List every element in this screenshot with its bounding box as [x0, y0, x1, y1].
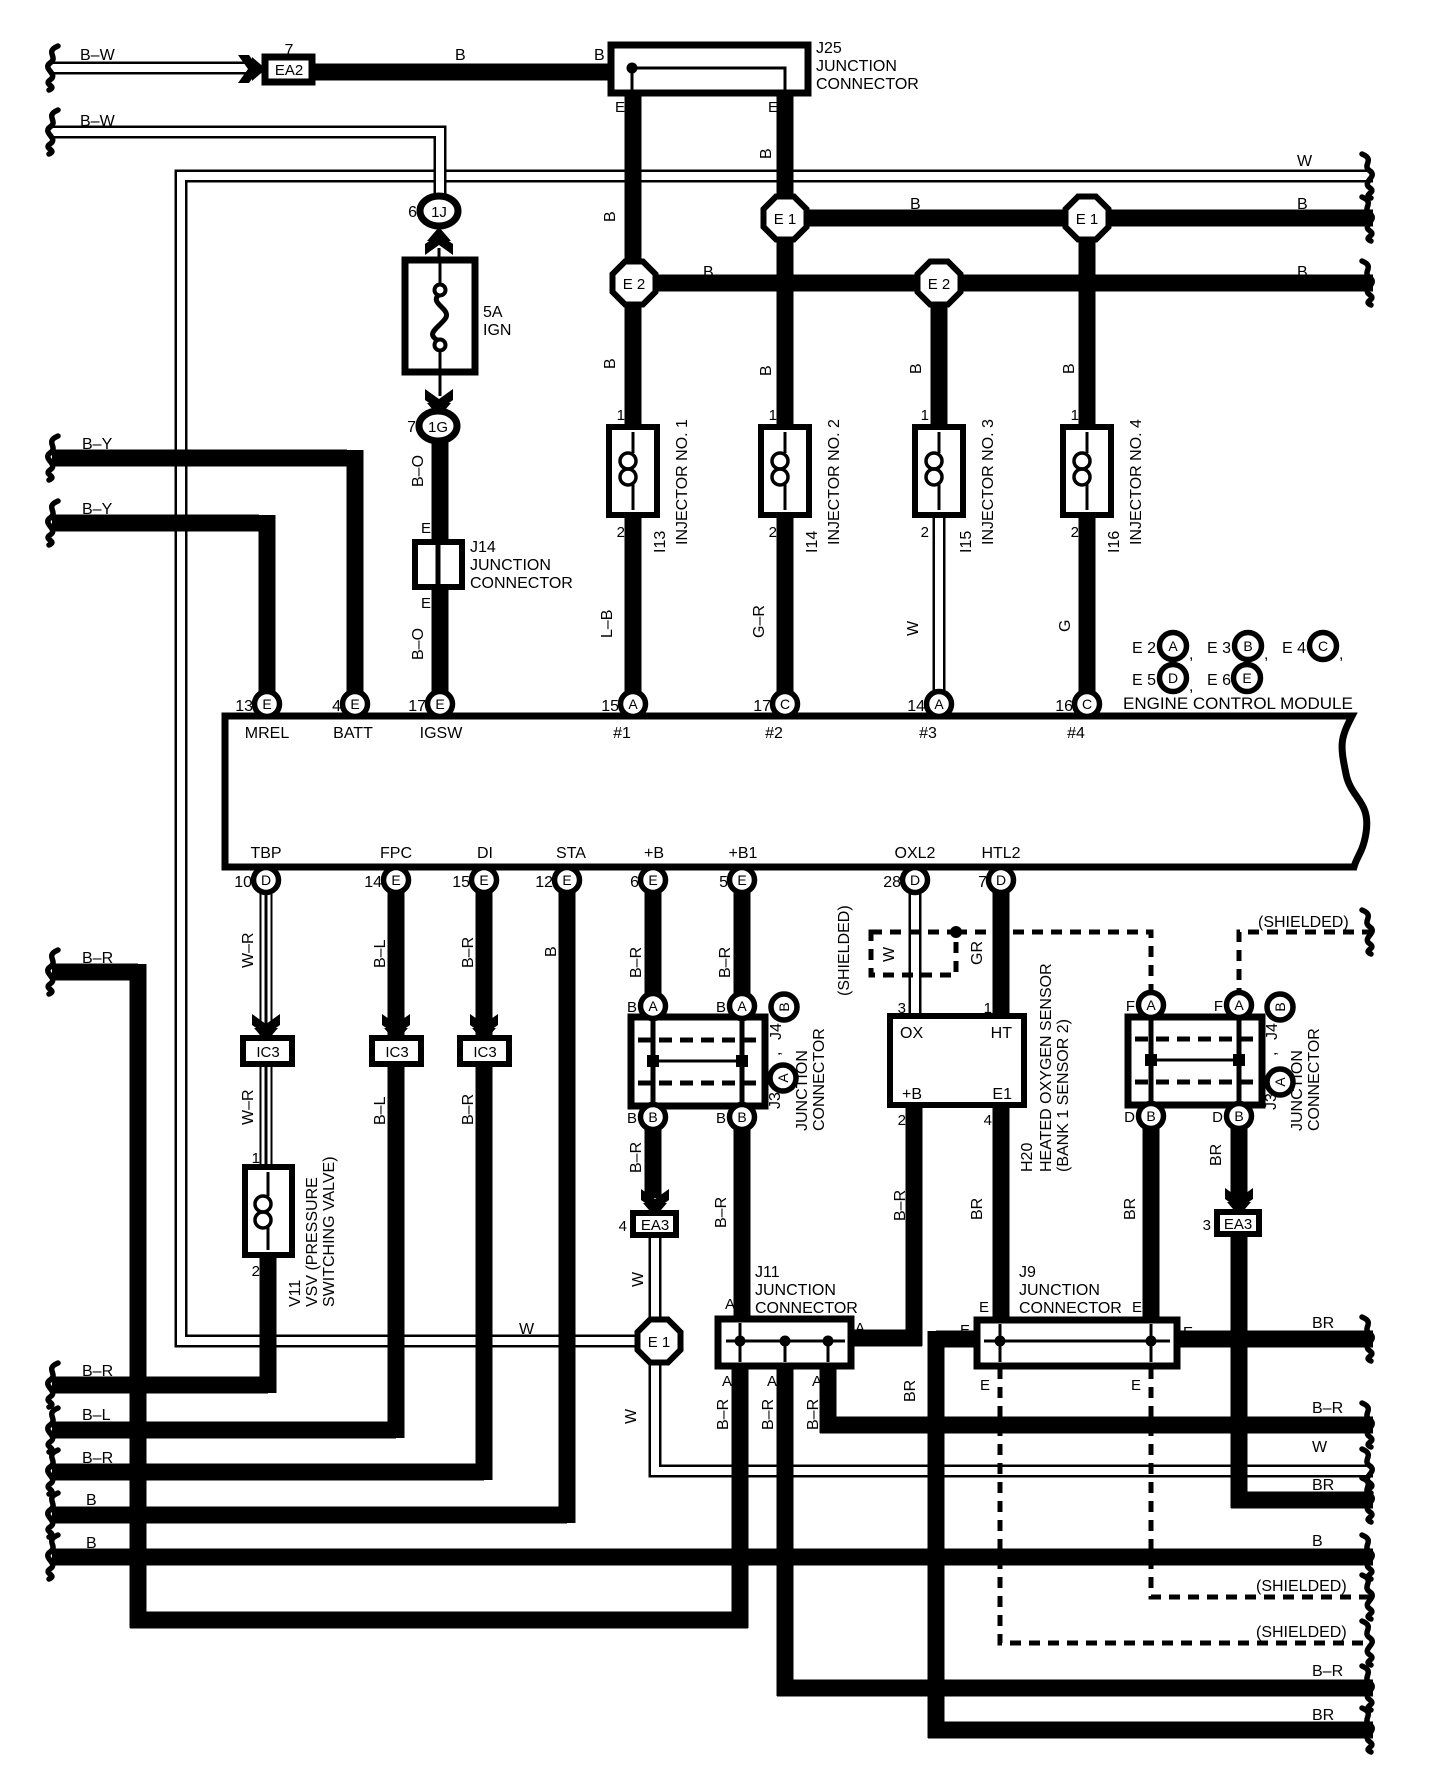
svg-text:,: ,	[1339, 646, 1343, 663]
connector EA3-3 box	[1217, 1212, 1259, 1234]
injector I14 box	[761, 427, 809, 515]
svg-text:(SHIELDED): (SHIELDED)	[1256, 1624, 1347, 1641]
svg-text:A: A	[934, 696, 944, 712]
svg-text:E: E	[421, 595, 431, 612]
svg-text:1: 1	[984, 1000, 992, 1017]
sensor OX H2O box	[890, 1016, 1024, 1105]
svg-text:A: A	[775, 1073, 791, 1083]
svg-text:5: 5	[719, 874, 728, 891]
svg-text:G: G	[1057, 620, 1074, 632]
svg-text:B: B	[716, 999, 726, 1016]
svg-text:6: 6	[630, 874, 639, 891]
ECM engine control module box	[225, 716, 1367, 867]
svg-text:#1: #1	[613, 725, 631, 742]
left junction circle B B1	[641, 1105, 666, 1130]
wire B-W second to node 1J	[52, 132, 440, 200]
svg-text:EA2: EA2	[275, 62, 303, 79]
svg-text:B: B	[602, 358, 619, 369]
svg-text:EA3: EA3	[641, 1217, 669, 1234]
svg-text:I13: I13	[652, 531, 669, 553]
break arrow right W bottom	[1362, 1449, 1372, 1493]
svg-text:E: E	[350, 696, 359, 712]
svg-text:(BANK 1 SENSOR 2): (BANK 1 SENSOR 2)	[1055, 1019, 1072, 1172]
break arrow left B-Y 1	[48, 436, 58, 480]
svg-text:B: B	[1146, 1108, 1155, 1124]
svg-text:15: 15	[452, 874, 470, 891]
svg-text:OX: OX	[900, 1025, 923, 1042]
junction connector J9 box	[977, 1320, 1177, 1366]
svg-text:A: A	[722, 1373, 732, 1390]
svg-text:A: A	[737, 998, 747, 1014]
svg-text:28: 28	[883, 874, 901, 891]
connector arrow down into EA3-3	[1225, 1188, 1253, 1216]
svg-text:E 2: E 2	[623, 276, 646, 293]
wire B-R sensor OX pin +B to junction connector J11 pin A	[848, 1108, 922, 1346]
svg-text:B: B	[758, 365, 775, 376]
svg-text:7: 7	[978, 874, 987, 891]
svg-text:C: C	[780, 696, 790, 712]
ECM terminal 10 D TBP	[254, 868, 279, 893]
svg-text:JUNCTION: JUNCTION	[1019, 1282, 1100, 1299]
svg-text:J3: J3	[767, 1092, 784, 1109]
svg-text:B–W: B–W	[80, 113, 116, 130]
svg-text:17: 17	[753, 698, 771, 715]
svg-text:JUNCTION: JUNCTION	[755, 1282, 836, 1299]
break arrow right BR EA3	[1362, 1478, 1372, 1522]
svg-text:2: 2	[921, 524, 929, 541]
svg-text:B–R: B–R	[82, 1363, 113, 1380]
break arrow left B 2	[48, 1535, 58, 1579]
svg-text:12: 12	[535, 874, 553, 891]
svg-text:BR: BR	[1208, 1144, 1225, 1166]
ECM terminal 4 E BATT	[343, 692, 368, 717]
svg-text:D: D	[910, 872, 920, 888]
ECM terminal 28 D OXL2	[903, 868, 928, 893]
svg-text:IC3: IC3	[385, 1044, 408, 1061]
circle J3 A right	[1267, 1069, 1293, 1095]
svg-text:B–R: B–R	[628, 1142, 645, 1173]
svg-text:INJECTOR NO. 1: INJECTOR NO. 1	[674, 419, 691, 545]
svg-text:6: 6	[408, 204, 417, 221]
ECM terminal 15 A #1	[621, 692, 646, 717]
svg-text:B–R: B–R	[1312, 1400, 1343, 1417]
svg-text:A: A	[725, 1296, 735, 1313]
shield dashed line to right junction connector F-A left	[956, 932, 1151, 990]
break arrow right B bottom	[1362, 1535, 1372, 1579]
break arrow left B-Y 2	[48, 501, 58, 545]
shield dashed line J9 pin E right to right edge	[1151, 1368, 1373, 1597]
wire B-R junction connector J11 pin A2 to right edge	[777, 1364, 1373, 1696]
wire B-R ECM pin +B to junction connector circle A	[645, 888, 662, 1002]
junction connector J11 box	[718, 1319, 851, 1366]
svg-text:B: B	[1312, 1533, 1323, 1550]
svg-text:B: B	[648, 1109, 657, 1125]
svg-text:2: 2	[1071, 524, 1079, 541]
break arrow right BR 2	[1362, 1708, 1372, 1752]
J25 inner bus	[632, 68, 785, 90]
svg-text:C: C	[1082, 696, 1092, 712]
right junction circle F A2	[1227, 993, 1252, 1018]
svg-text:B–Y: B–Y	[82, 436, 113, 453]
wire L-B injector no.1 to ECM pin #1	[625, 514, 642, 697]
svg-text:B: B	[543, 946, 560, 957]
svg-text:1: 1	[921, 407, 929, 424]
svg-text:E 6: E 6	[1207, 672, 1231, 689]
ECM terminal 17 E IGSW	[428, 692, 453, 717]
svg-text:B–Y: B–Y	[82, 501, 113, 518]
svg-text:E 2: E 2	[928, 276, 951, 293]
svg-text:B: B	[737, 1109, 746, 1125]
break arrow left B-R 2	[48, 1363, 58, 1407]
ECM terminal 6 E +B	[641, 868, 666, 893]
svg-text:D: D	[1124, 1109, 1135, 1126]
svg-text:,: ,	[1263, 1052, 1280, 1056]
svg-text:I14: I14	[804, 531, 821, 553]
svg-text:B: B	[1234, 1108, 1243, 1124]
svg-text:E: E	[615, 99, 625, 116]
svg-text:CONNECTOR: CONNECTOR	[1019, 1300, 1122, 1317]
connector arrow up into 1J	[425, 234, 453, 255]
svg-text:IGN: IGN	[483, 322, 511, 339]
svg-text:J11: J11	[755, 1264, 780, 1281]
svg-text:DI: DI	[477, 845, 493, 862]
svg-text:J9: J9	[1019, 1264, 1036, 1281]
connector arrow chevrons into EA2	[238, 55, 259, 83]
svg-text:E: E	[737, 872, 746, 888]
junction connector J14 box	[415, 542, 462, 587]
wire GR ECM pin HTL2 to sensor OX pin HT	[993, 888, 1010, 1020]
svg-text:JUNCTION: JUNCTION	[816, 58, 897, 75]
svg-text:,: ,	[1189, 678, 1193, 695]
wire B from left edge up to ECM pin STA	[52, 888, 567, 1523]
svg-text:INJECTOR NO. 2: INJECTOR NO. 2	[826, 419, 843, 545]
svg-text:B–R: B–R	[713, 1197, 730, 1228]
svg-text:A: A	[1272, 1077, 1288, 1087]
break arrow left B-R 1	[48, 950, 58, 994]
wire B node E1 to injector no.2	[777, 237, 794, 432]
svg-text:B–O: B–O	[410, 628, 427, 660]
svg-text:4: 4	[619, 1218, 627, 1235]
svg-text:E 4: E 4	[1282, 640, 1306, 657]
svg-text:B–R: B–R	[460, 937, 477, 968]
svg-text:B–R: B–R	[805, 1399, 822, 1430]
svg-text:E: E	[768, 99, 778, 116]
svg-text:INJECTOR NO. 4: INJECTOR NO. 4	[1128, 419, 1145, 545]
svg-text:(SHIELDED): (SHIELDED)	[836, 905, 853, 996]
svg-text:F: F	[1126, 998, 1135, 1015]
wire B node E2 row to right edge	[634, 275, 1373, 292]
svg-text:W: W	[623, 1408, 640, 1424]
svg-text:B: B	[910, 196, 921, 213]
svg-text:,: ,	[1189, 646, 1193, 663]
svg-text:J25: J25	[816, 40, 842, 57]
node E1 second octagon	[1066, 197, 1109, 240]
connector IC3-6 box	[243, 1038, 292, 1064]
svg-text:E: E	[391, 872, 400, 888]
break arrow left B-L	[48, 1408, 58, 1452]
wire B node E2-2 to injector no.3	[931, 302, 948, 432]
wire B node E1 row to right edge	[785, 210, 1373, 227]
svg-text:E: E	[1131, 1377, 1141, 1394]
wire B-R from left edge up to ECM pin DI	[52, 888, 484, 1480]
svg-text:I16: I16	[1106, 531, 1123, 553]
svg-text:E: E	[648, 872, 657, 888]
wire fuse to arrow	[439, 372, 442, 396]
fuse element	[439, 263, 442, 370]
circle J3 A left	[770, 1065, 796, 1091]
svg-text:B–R: B–R	[715, 1399, 732, 1430]
connector arrow down into IC3-19	[382, 1014, 410, 1042]
wire B node E2 to injector no.1	[625, 302, 642, 432]
svg-text:ENGINE CONTROL MODULE: ENGINE CONTROL MODULE	[1123, 694, 1353, 713]
svg-text:B–L: B–L	[372, 1096, 389, 1125]
svg-text:A: A	[1234, 997, 1244, 1013]
injector I15 box	[915, 427, 963, 515]
svg-text:B: B	[908, 363, 925, 374]
wire W from ECM pin OXL2 to sensor OX pin 3	[909, 890, 922, 1016]
wire B-R left edge to valve VSV pin 2	[52, 1252, 268, 1393]
wire W-R from ECM pin TBP to connector IC3-6	[260, 888, 273, 1040]
break arrow right shield 2	[1362, 1621, 1372, 1665]
svg-text:B: B	[1061, 363, 1078, 374]
svg-text:W: W	[630, 1271, 647, 1287]
svg-text:C: C	[1318, 638, 1328, 654]
wire B J25 left pin down to node E2	[625, 90, 642, 265]
wire BR junction connector J9 left pin to right edge bottom	[928, 1331, 1373, 1738]
break arrow right shield 1	[1362, 1575, 1372, 1619]
svg-text:4: 4	[984, 1112, 992, 1129]
break arrow right W top	[1362, 154, 1372, 198]
svg-text:1: 1	[1071, 407, 1079, 424]
wire B from EA2 to junction connector J25	[310, 64, 614, 81]
svg-text:B: B	[776, 1002, 792, 1011]
svg-text:E: E	[421, 520, 431, 537]
svg-text:BR: BR	[1122, 1198, 1139, 1220]
svg-text:F: F	[1214, 998, 1223, 1015]
wire B long bottom from left edge to right edge	[52, 1549, 1373, 1566]
wire W main loop (right edge y176, left x181, bottom y1341 to node E1)	[181, 176, 1373, 1341]
svg-text:B–R: B–R	[760, 1399, 777, 1430]
svg-text:E: E	[1132, 1299, 1142, 1316]
left junction circle B A2	[730, 994, 755, 1019]
svg-text:BR: BR	[1312, 1477, 1334, 1494]
svg-text:CONNECTOR: CONNECTOR	[811, 1028, 828, 1131]
svg-text:B: B	[627, 999, 637, 1016]
svg-text:B: B	[86, 1535, 97, 1552]
svg-text:W–R: W–R	[240, 932, 257, 968]
connector arrow down into IC3-7	[470, 1014, 498, 1042]
svg-text:2: 2	[769, 524, 777, 541]
svg-text:B: B	[86, 1492, 97, 1509]
svg-text:B–O: B–O	[410, 455, 427, 487]
node E2 second octagon	[918, 262, 961, 305]
wire B-O node 1G to ECM pin IGSW	[432, 438, 449, 697]
break arrow left B 1	[48, 1493, 58, 1537]
connector IC3-19 box	[372, 1038, 421, 1064]
svg-text:W: W	[881, 946, 898, 962]
shield junction dot	[950, 926, 962, 938]
svg-text:W: W	[1297, 153, 1313, 170]
svg-text:JUNCTION: JUNCTION	[1289, 1050, 1306, 1131]
wire BR connector EA3-3 down to right edge	[1231, 1232, 1373, 1508]
break arrow left B-W 2	[48, 110, 58, 154]
svg-text:B–R: B–R	[1312, 1663, 1343, 1680]
svg-text:BR: BR	[1312, 1315, 1334, 1332]
svg-text:W–R: W–R	[240, 1089, 257, 1125]
svg-text:E: E	[479, 872, 488, 888]
svg-text:B: B	[716, 1110, 726, 1127]
svg-text:14: 14	[907, 698, 925, 715]
svg-text:E 1: E 1	[1076, 211, 1099, 228]
svg-text:E: E	[562, 872, 571, 888]
break arrow right B-R	[1362, 1403, 1372, 1447]
svg-text:D: D	[261, 872, 271, 888]
svg-text:IGSW: IGSW	[420, 725, 464, 742]
svg-text:,: ,	[767, 1052, 784, 1056]
right junction circle D B2	[1227, 1104, 1252, 1129]
svg-text:#3: #3	[919, 725, 937, 742]
svg-text:1G: 1G	[428, 419, 448, 436]
wire B-L from left edge up to ECM pin FPC	[52, 888, 396, 1438]
svg-text:CONNECTOR: CONNECTOR	[816, 76, 919, 93]
wire BR sensor OX pin E1 to junction connector J9	[993, 1108, 1010, 1322]
svg-text:BR: BR	[902, 1380, 919, 1402]
svg-text:#2: #2	[765, 725, 783, 742]
node E1 octagon	[764, 197, 807, 240]
svg-text:1: 1	[769, 407, 777, 424]
injector I16 box	[1063, 427, 1111, 515]
wire B-Y to ECM pin BATT	[52, 450, 355, 697]
svg-text:J4: J4	[768, 1023, 785, 1040]
break arrow right BR J9	[1362, 1317, 1372, 1361]
svg-text:B–R: B–R	[460, 1094, 477, 1125]
ECM terminal 5 E +B1	[730, 868, 755, 893]
svg-text:B: B	[594, 47, 605, 64]
svg-text:MREL: MREL	[245, 725, 290, 742]
valve VSV V11 box	[245, 1167, 292, 1255]
svg-text:+B: +B	[644, 845, 664, 862]
junction connector J25 box	[611, 45, 808, 93]
svg-text:16: 16	[1055, 698, 1073, 715]
svg-text:7: 7	[285, 42, 294, 59]
svg-text:STA: STA	[556, 845, 586, 862]
svg-text:HT: HT	[991, 1025, 1013, 1042]
svg-text:V11: V11	[287, 1280, 304, 1307]
svg-text:D: D	[1212, 1109, 1223, 1126]
svg-text:B: B	[1297, 264, 1308, 281]
svg-text:E: E	[980, 1377, 990, 1394]
svg-text:G–R: G–R	[751, 605, 768, 638]
svg-text:H20: H20	[1019, 1143, 1036, 1172]
svg-text:J4: J4	[1264, 1023, 1281, 1040]
wire W from connector EA3-4 through node E1 down to right edge	[655, 1235, 1373, 1471]
svg-text:W: W	[519, 1321, 535, 1338]
svg-text:(SHIELDED): (SHIELDED)	[1256, 1578, 1347, 1595]
svg-text:L–B: L–B	[599, 610, 616, 638]
svg-text:E 1: E 1	[648, 1334, 671, 1351]
svg-text:5A: 5A	[483, 304, 503, 321]
wire B node E1-2 to injector no.4	[1079, 237, 1096, 432]
svg-text:A: A	[628, 696, 638, 712]
wire B-Y to ECM pin MREL	[52, 515, 267, 697]
break arrow left B-W 1	[48, 46, 58, 90]
ECM terminal 13 E MREL	[255, 692, 280, 717]
svg-text:#4: #4	[1067, 725, 1085, 742]
left junction circle B A1	[641, 994, 666, 1019]
right junction circle F A1	[1139, 993, 1164, 1018]
node E1 bottom octagon	[638, 1320, 681, 1363]
wire B-W top to connector EA2	[52, 62, 248, 75]
svg-text:2: 2	[252, 1263, 260, 1280]
svg-text:A: A	[1146, 997, 1156, 1013]
svg-text:CONNECTOR: CONNECTOR	[1306, 1028, 1323, 1131]
svg-text:1: 1	[252, 1150, 260, 1167]
wire B-R junction circle B to junction connector J11	[734, 1112, 751, 1322]
injector I13 box	[609, 427, 657, 515]
svg-text:B–L: B–L	[372, 939, 389, 968]
svg-text:B–R: B–R	[717, 947, 734, 978]
wire G-R injector no.2 to ECM pin #2	[777, 514, 794, 697]
connector arrow down into 1G	[425, 389, 453, 410]
svg-text:A: A	[812, 1373, 822, 1390]
svg-text:B: B	[1272, 1002, 1288, 1011]
svg-text:B: B	[758, 148, 775, 159]
ECM terminal 17 C #2	[773, 692, 798, 717]
svg-text:B: B	[627, 1110, 637, 1127]
svg-text:E: E	[979, 1299, 989, 1316]
shield dashed line J9 pin E left to right edge	[1000, 1368, 1373, 1643]
svg-text:,: ,	[1264, 646, 1268, 663]
svg-text:B–L: B–L	[82, 1407, 111, 1424]
connector EA3-4 box	[633, 1213, 676, 1235]
svg-text:D: D	[1168, 670, 1178, 686]
svg-text:IC3: IC3	[473, 1044, 496, 1061]
svg-text:CONNECTOR: CONNECTOR	[755, 1300, 858, 1317]
ECM terminal 14 E FPC	[384, 868, 409, 893]
svg-text:4: 4	[332, 698, 341, 715]
connector arrow down into IC3-6	[252, 1014, 280, 1042]
wire B-R junction connector J11 pin A3 to right edge	[820, 1364, 1373, 1433]
wire W-R from connector IC3-6 to valve VSV pin 1	[260, 1064, 273, 1167]
wire B-R left edge loop to junction connector J11 pin A1	[52, 964, 748, 1628]
circle J4 B left	[771, 994, 797, 1020]
shield dashed box around OXL2 wire	[871, 932, 956, 975]
svg-text:E 3: E 3	[1207, 640, 1231, 657]
svg-text:W: W	[1312, 1439, 1328, 1456]
wire into fuse	[438, 248, 441, 266]
break arrow right shield top	[1362, 910, 1372, 954]
svg-text:B–R: B–R	[82, 950, 113, 967]
connector arrow down into EA3-4	[641, 1189, 669, 1217]
svg-text:IC3: IC3	[256, 1044, 279, 1061]
svg-text:OXL2: OXL2	[895, 845, 936, 862]
svg-text:INJECTOR NO. 3: INJECTOR NO. 3	[980, 419, 997, 545]
ECM terminal 12 E STA	[555, 868, 580, 893]
ECM terminal 7 D HTL2	[989, 868, 1014, 893]
svg-text:17: 17	[408, 698, 426, 715]
break arrow right B E1 row	[1362, 197, 1372, 241]
svg-text:B–W: B–W	[80, 47, 116, 64]
svg-text:1: 1	[617, 407, 625, 424]
svg-text:E 2: E 2	[1132, 640, 1156, 657]
svg-text:E: E	[262, 696, 271, 712]
left junction connector box (J3/J4)	[631, 1017, 765, 1106]
svg-text:E: E	[1242, 670, 1251, 686]
svg-text:FPC: FPC	[380, 845, 412, 862]
svg-text:A: A	[767, 1373, 777, 1390]
shield dashed line from right edge to right junction connector F-A right	[1239, 932, 1373, 990]
break arrow right B E2 row	[1362, 261, 1372, 305]
